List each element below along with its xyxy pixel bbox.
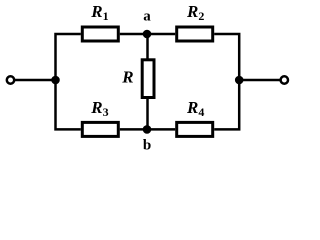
wire: R4 to right junction (bottom-right corner) xyxy=(214,80,239,129)
wire: left terminal to left junction xyxy=(14,79,56,82)
junction: left node xyxy=(51,76,60,85)
node a junction dot xyxy=(143,30,152,39)
wire: node a down to resistor R xyxy=(146,34,149,59)
svg-text:a: a xyxy=(143,9,151,25)
right terminal xyxy=(281,76,288,83)
wire: R3 to node b xyxy=(120,128,147,131)
wire: right junction to right terminal xyxy=(239,79,281,82)
resistor R2 xyxy=(177,27,213,41)
wire: R2 to right junction (top-right corner) xyxy=(214,34,239,80)
junction: right node xyxy=(235,76,244,85)
resistor R1 xyxy=(82,27,118,41)
resistor R4 xyxy=(177,122,213,136)
left terminal xyxy=(7,76,14,83)
wire: left branch (top rail start, left vertical, bottom rail start) xyxy=(56,34,81,129)
svg-text:b: b xyxy=(143,138,151,154)
wire: node b to R4 xyxy=(147,128,175,131)
wire: resistor R down to node b xyxy=(146,98,149,129)
node b junction dot xyxy=(143,125,152,134)
svg-text:R: R xyxy=(121,68,133,87)
resistor R3 xyxy=(82,122,118,136)
wire: node a to R2 xyxy=(147,33,175,36)
resistor R (middle bridge) xyxy=(142,60,154,98)
wire: R1 to node a xyxy=(120,33,147,36)
